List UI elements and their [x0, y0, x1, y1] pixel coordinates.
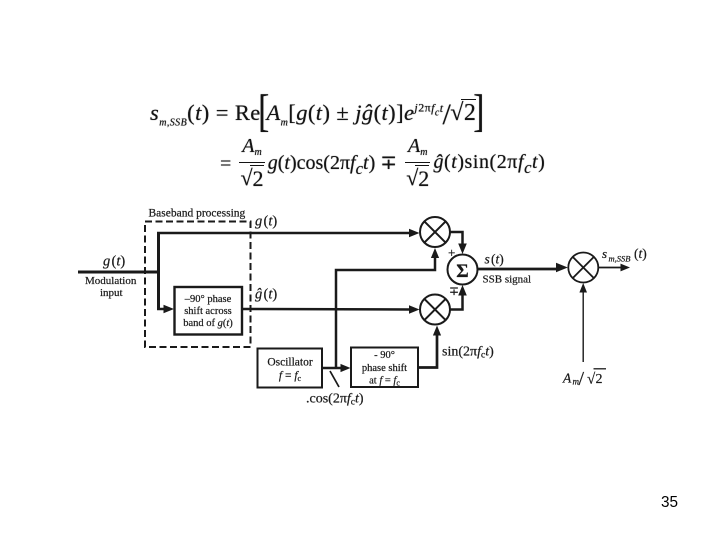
svg-text:(t): (t) — [491, 252, 504, 267]
svg-text:–90° phase: –90° phase — [184, 294, 232, 305]
svg-text:g: g — [103, 254, 110, 270]
svg-text:(t): (t) — [634, 246, 647, 261]
svg-text:SSB signal: SSB signal — [483, 274, 532, 286]
svg-text:Σ: Σ — [456, 261, 468, 282]
wire: M2 out to summer — [450, 291, 463, 310]
svg-text:(t): (t) — [264, 287, 278, 303]
wire: branch vertical — [157, 232, 160, 309]
arrowhead Am input — [579, 283, 587, 293]
multiplier M1 (top) — [420, 217, 450, 247]
svg-text:g: g — [255, 214, 262, 230]
svg-text:∓: ∓ — [449, 284, 459, 298]
arrowhead sin into M2 bottom — [433, 326, 441, 336]
arrowhead into U3 — [341, 364, 351, 372]
svg-text:/: / — [579, 368, 585, 390]
wire: output — [598, 267, 622, 269]
arrowhead into M1 — [409, 229, 420, 238]
svg-text:(t): (t) — [264, 214, 278, 230]
svg-text:+: + — [448, 245, 455, 260]
wire: g(t) top path — [157, 232, 412, 235]
arrowhead cos into M1 bottom — [431, 248, 439, 258]
wire: sin path — [418, 333, 437, 368]
summer S1 — [448, 255, 478, 285]
wire: summer out — [478, 268, 559, 271]
svg-text:sin(2πfct): sin(2πfct) — [442, 345, 494, 361]
arrowhead into summer top — [458, 244, 467, 255]
block U3: -90 deg phase shift at f=fc — [351, 348, 418, 388]
svg-text:Baseband processing: Baseband processing — [149, 208, 246, 220]
dashed box: baseband processing — [145, 222, 251, 348]
equation line 1 — [150, 100, 482, 129]
page number — [661, 494, 678, 512]
wire: oscillator out — [322, 367, 343, 370]
wire: Am/sqrt2 input — [582, 291, 584, 362]
arrowhead into M2 — [409, 305, 420, 314]
svg-text:m,SSB: m,SSB — [609, 254, 631, 264]
svg-text:.cos(2πfct): .cos(2πfct) — [306, 392, 364, 408]
wire: into phase shifter — [157, 308, 167, 311]
arrowhead into U1 — [164, 305, 175, 314]
block U1: -90 deg phase shift across band of g(t) — [175, 287, 243, 335]
svg-text:Oscillator: Oscillator — [267, 357, 313, 369]
svg-text:shift across: shift across — [184, 306, 232, 317]
svg-text:2: 2 — [596, 372, 603, 387]
arrowhead output — [621, 264, 631, 272]
svg-text:- 90°: - 90° — [374, 350, 395, 361]
svg-text:(t): (t) — [112, 254, 126, 270]
block U2: oscillator f=fc — [258, 349, 323, 388]
svg-text:phase shift: phase shift — [362, 363, 407, 374]
svg-text:s: s — [485, 252, 490, 267]
arrowhead into summer bottom — [458, 285, 467, 296]
multiplier M3 (output) — [568, 253, 598, 283]
wire: M1 out to summer — [450, 232, 463, 248]
wire: cos branch — [336, 256, 435, 367]
svg-text:f = fc: f = fc — [279, 370, 302, 383]
wire: modulation input — [78, 271, 159, 274]
svg-text:input: input — [100, 287, 123, 299]
svg-text:s: s — [602, 246, 607, 261]
arrowhead into M3 — [556, 263, 568, 273]
wire: ghat path — [242, 308, 412, 311]
svg-text:ĝ: ĝ — [255, 287, 262, 303]
leader: cos label — [330, 371, 339, 387]
svg-text:at f = fc: at f = fc — [369, 376, 400, 388]
svg-text:A: A — [562, 371, 572, 386]
equation line 2 — [220, 140, 545, 192]
svg-text:Modulation: Modulation — [85, 275, 137, 287]
svg-text:band of g(t): band of g(t) — [183, 318, 233, 329]
multiplier M2 (bottom) — [420, 295, 450, 325]
